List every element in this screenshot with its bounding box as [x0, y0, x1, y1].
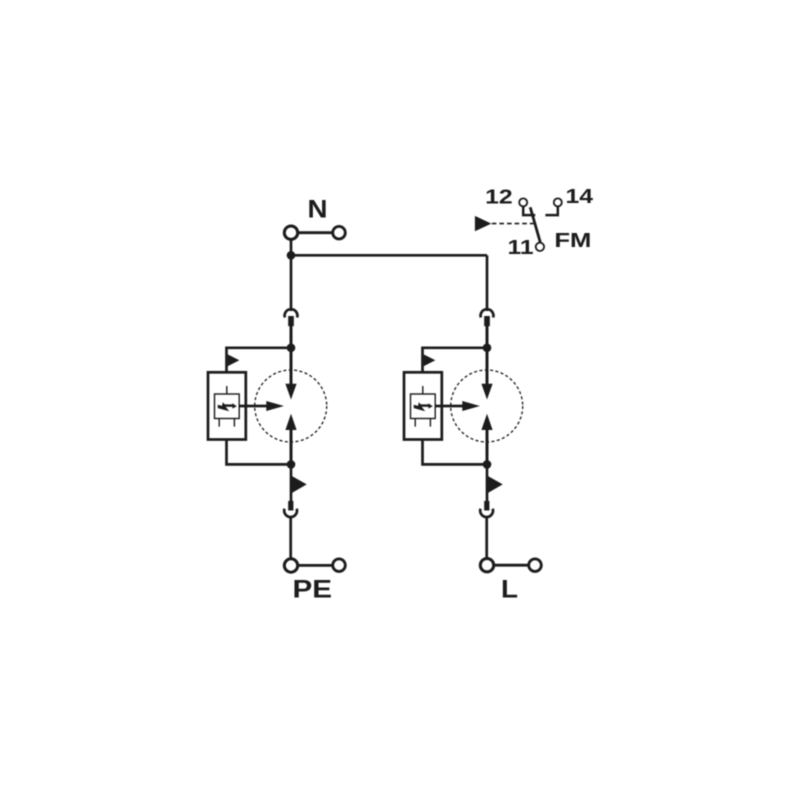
node bus junction — [287, 251, 296, 260]
terminal PE link wire — [298, 564, 333, 567]
thermal disconnect plug bottom left — [288, 501, 293, 511]
wire N terminal down to bus — [290, 239, 293, 256]
thermal disconnect arc bottom right — [480, 509, 493, 517]
svg-text:N: N — [308, 195, 328, 223]
node junction upper right branch — [483, 344, 492, 353]
wire branch N vertical to disconnect — [290, 255, 293, 311]
direction flag small right — [424, 354, 436, 366]
wire spark gap to lower junction left — [290, 429, 293, 465]
wire junction to spark gap right — [486, 348, 489, 385]
FM actuator dashed link — [492, 223, 534, 225]
FM contact 12 bracket — [523, 207, 535, 216]
FM switch blade — [530, 207, 540, 242]
varistor bottom pin b left — [233, 419, 235, 427]
direction flag small left — [228, 354, 240, 366]
direction flag large right — [488, 476, 503, 493]
svg-text:L: L — [501, 576, 518, 604]
trigger arrowhead left — [266, 401, 284, 411]
node junction lower right branch — [483, 460, 492, 469]
wire monitor loop top left — [227, 348, 292, 373]
thermal disconnect plug top right branch — [484, 316, 490, 326]
svg-text:FM: FM — [554, 230, 591, 252]
FM contact 14 bracket — [545, 207, 557, 216]
varistor top pin right — [422, 386, 424, 394]
varistor bottom pin a left — [218, 419, 220, 427]
varistor top pin left — [226, 386, 228, 394]
wire bus horizontal N to L branch — [291, 254, 487, 257]
thermal disconnect plug bottom right — [484, 501, 489, 511]
terminal PE circle right — [333, 559, 346, 572]
wire monitor loop top right — [423, 348, 488, 373]
terminal L circle left — [480, 559, 493, 572]
terminal N circle right — [333, 226, 346, 239]
wire monitor loop bottom left — [227, 440, 292, 465]
thermal disconnect arc top right branch — [481, 309, 494, 317]
thermal disconnect arc bottom left — [284, 509, 297, 517]
spark gap dashed circle left — [255, 370, 327, 442]
wire branch L vertical to disconnect — [486, 255, 489, 311]
wire junction to lower disconnect left — [290, 464, 293, 501]
spark gap dashed circle right — [451, 370, 523, 442]
wire disconnect to junction right — [486, 326, 489, 349]
varistor module box right — [404, 372, 442, 439]
svg-text:PE: PE — [293, 576, 333, 604]
wire to L terminal right — [485, 517, 488, 558]
direction flag large left — [292, 476, 307, 493]
varistor module box left — [208, 372, 246, 439]
lightning bolt symbol right — [414, 402, 433, 411]
terminal PE circle left — [284, 559, 297, 572]
svg-text:14: 14 — [566, 186, 595, 208]
terminal N circle left — [284, 226, 297, 239]
thermal disconnect plug top left branch — [288, 316, 294, 326]
varistor bottom pin b right — [429, 419, 431, 427]
wire junction to spark gap left — [290, 348, 293, 385]
spark gap lower electrode left — [285, 414, 296, 430]
lightning bolt symbol left — [218, 402, 237, 411]
node junction lower left branch — [287, 460, 296, 469]
varistor inner box right — [411, 394, 436, 419]
varistor bottom pin a right — [414, 419, 416, 427]
wire junction to lower disconnect right — [486, 464, 489, 501]
spark gap lower electrode right — [481, 414, 492, 430]
thermal disconnect arc top left branch — [285, 309, 298, 317]
terminal N link wire — [298, 231, 333, 234]
spark gap upper electrode right — [481, 384, 492, 400]
terminal L circle right — [529, 559, 542, 572]
spark gap upper electrode left — [285, 384, 296, 400]
node junction upper left branch — [287, 344, 296, 353]
wire disconnect to junction left — [290, 326, 293, 349]
FM actuator arrow — [475, 216, 491, 231]
svg-text:11: 11 — [508, 237, 534, 259]
terminal L link wire — [494, 564, 529, 567]
FM contact 11 pin circle — [536, 243, 544, 251]
FM contact 12 pin circle — [519, 198, 527, 206]
FM contact 14 pin circle — [554, 198, 562, 206]
trigger arrow shaft right — [435, 405, 463, 408]
wire to PE terminal left — [289, 517, 292, 558]
svg-text:12: 12 — [485, 187, 513, 209]
trigger arrowhead right — [462, 401, 480, 411]
trigger arrow shaft left — [239, 405, 267, 408]
varistor inner box left — [215, 394, 240, 419]
wire spark gap to lower junction right — [486, 429, 489, 465]
wire monitor loop bottom right — [423, 440, 488, 465]
